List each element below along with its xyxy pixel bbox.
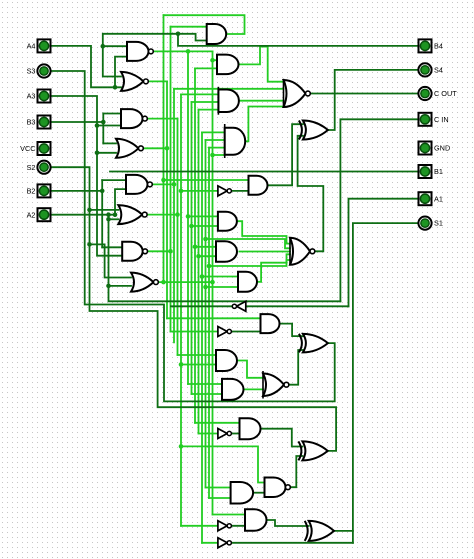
and gate G26: [222, 379, 244, 400]
wire net G12 input 3: [209, 147, 225, 149]
wire bus V10: [198, 110, 200, 434]
wire net G1 out: [153, 49, 213, 54]
not gate G15: [218, 186, 232, 196]
nor gate G27: [263, 371, 289, 399]
svg-text:A4: A4: [27, 42, 36, 51]
wire net G31 out: [253, 492, 264, 494]
nand gate G35: [265, 477, 291, 497]
nor gate G6: [118, 205, 147, 224]
wire net G19 input 2: [203, 237, 290, 249]
wire bus V5: [177, 119, 179, 355]
wire net G16 top input: [161, 178, 248, 183]
and gate G12: [225, 124, 245, 158]
wire net G23 out to G24: [280, 324, 303, 337]
wire net G2 out: [148, 80, 167, 82]
wire net G5 out: [151, 182, 176, 187]
input pin VCC: [20, 142, 50, 155]
nor gate G4: [116, 139, 143, 158]
svg-text:C OUT: C OUT: [434, 89, 457, 98]
wire net G6 top input: [90, 209, 119, 211]
wire net G34 out: [230, 542, 353, 544]
wire net G11 input 1: [181, 93, 218, 95]
wire net S4: [328, 70, 418, 130]
wire net G35 out to G30: [290, 456, 302, 487]
wire net G11 input 2: [192, 101, 219, 103]
output pin S3: [27, 64, 51, 77]
wire net G29 out: [230, 433, 240, 435]
wire net G23 top input: [167, 317, 261, 319]
wire net G6 out: [147, 212, 180, 217]
wire net A4: [51, 46, 128, 90]
not gate G32: [218, 521, 232, 531]
input pin A1: [419, 192, 443, 205]
wire net G10 out: [239, 47, 284, 82]
nor gate G19: [290, 238, 315, 265]
wire net G31 top input: [206, 487, 231, 489]
wire net G15 out: [230, 190, 249, 192]
wire net A1 inverted: [171, 305, 349, 307]
wire net G17 out: [237, 221, 290, 243]
wire net G17 bottom input: [189, 224, 218, 229]
not gate G29: [218, 429, 232, 439]
wire net B3: [51, 114, 122, 144]
input pin B1: [419, 165, 443, 178]
wire net G10 top input: [210, 58, 217, 63]
wire net G34 input: [202, 542, 218, 544]
wire net G31 bottom input: [209, 497, 231, 499]
and gate G20: [238, 272, 257, 292]
wire net G12 out: [246, 107, 284, 142]
and gate G10: [217, 55, 239, 75]
wire net G29 input: [199, 433, 218, 435]
wire net G9 out loop: [164, 15, 245, 34]
svg-text:A2: A2: [27, 210, 36, 219]
and gate G31: [231, 482, 254, 504]
wire net G25 bottom input: [179, 362, 216, 367]
wire net G28 top input: [195, 422, 240, 424]
wire net G15 input: [179, 189, 218, 194]
wire net A3: [51, 96, 123, 256]
wire net G11 input 3: [199, 109, 219, 111]
input pin B4: [419, 39, 443, 52]
svg-text:B2: B2: [27, 187, 36, 196]
wire net S1: [353, 223, 419, 543]
wire net G13 input 2: [174, 88, 284, 90]
wire net G18 out: [239, 251, 290, 253]
input pin GND: [419, 142, 451, 155]
wire net G26 bottom input: [192, 393, 223, 395]
nand gate G1: [127, 42, 153, 61]
wire net C IN: [340, 119, 418, 301]
wire net G12 input 2: [206, 139, 225, 141]
and gate G23: [261, 314, 280, 333]
wire net B4: [101, 32, 419, 77]
and gate G18: [216, 241, 237, 262]
xor gate G14: [299, 121, 328, 140]
wire net S3: [51, 71, 335, 401]
wire net G22 out: [230, 331, 261, 333]
wire net A1: [349, 199, 419, 307]
wire net G33 out: [334, 530, 353, 532]
wire net A2: [51, 189, 341, 301]
wire bus V9: [194, 68, 196, 422]
svg-text:B1: B1: [434, 167, 443, 176]
wire net G27 out to G24: [286, 350, 303, 385]
wire net G20 bottom input: [203, 285, 238, 290]
input pin C IN: [419, 113, 449, 126]
wire net G8 out: [156, 280, 215, 285]
svg-text:A3: A3: [27, 92, 36, 101]
wire net G20 top input: [200, 274, 238, 279]
wire net G20 out: [257, 254, 290, 281]
wire net G10 bottom input: [195, 67, 217, 69]
input pin A2: [27, 208, 51, 221]
xor gate G30: [298, 441, 327, 460]
wire net G26 top input: [188, 383, 222, 385]
and gate G36: [245, 509, 267, 531]
wire net G28 out to G30: [261, 429, 303, 447]
input pin B2: [27, 184, 51, 197]
wire net G4 out: [143, 146, 169, 151]
wire net G12 input 1: [202, 131, 225, 133]
wire bus V2: [166, 81, 168, 318]
nor gate G8: [131, 273, 158, 292]
wire bus V7: [187, 51, 189, 384]
not gate G34: [218, 538, 232, 548]
and gate G17: [218, 212, 237, 231]
and gate G16: [249, 176, 268, 195]
wire net C OUT: [310, 93, 418, 95]
svg-text:S3: S3: [27, 67, 36, 76]
and gate G11: [218, 87, 239, 115]
wire net G8 top input: [90, 244, 132, 277]
wire net G11 out: [239, 100, 283, 102]
wire net B2: [51, 180, 127, 247]
svg-text:C IN: C IN: [434, 115, 449, 124]
wire net S2: [51, 167, 336, 451]
nand gate G3: [121, 109, 147, 128]
wire net G32 out: [230, 525, 246, 527]
wire net G3 out: [146, 118, 178, 120]
wire bus V1: [163, 15, 165, 282]
wire net G19 input 4: [207, 260, 290, 268]
wire net G36 top input: [213, 514, 246, 516]
wire bus V6: [180, 94, 182, 525]
svg-text:VCC: VCC: [20, 144, 35, 153]
wire net G18 bottom input: [196, 254, 216, 259]
xor gate G24: [299, 334, 328, 353]
svg-text:S4: S4: [434, 66, 443, 75]
nand gate G5: [126, 175, 152, 194]
wire net G17 top input: [186, 214, 218, 219]
wire bus V8: [191, 102, 193, 394]
output pin C OUT: [418, 87, 457, 100]
svg-text:B3: B3: [27, 118, 36, 127]
and gate G28: [240, 418, 261, 439]
wire bus V13: [208, 148, 210, 498]
wire net G9 top input: [171, 26, 207, 28]
svg-text:B4: B4: [434, 42, 443, 51]
wire net B1: [110, 171, 419, 173]
wire net G25 out: [237, 361, 263, 378]
wire net G26 out: [244, 388, 263, 390]
and gate G25: [216, 350, 237, 371]
not gate G22: [218, 327, 232, 337]
wire net G36 out to G33: [267, 520, 309, 526]
input pin A3: [27, 90, 51, 103]
output pin S2: [27, 161, 51, 174]
wire bus V3: [170, 27, 172, 332]
wire bus V11: [201, 132, 203, 542]
svg-text:GND: GND: [434, 144, 450, 153]
wire net G25 top input: [178, 354, 217, 356]
not gate G21: [232, 301, 246, 311]
wire net G35 top input: [179, 444, 265, 482]
svg-text:S2: S2: [27, 163, 36, 172]
nor gate G2: [121, 72, 148, 91]
and gate G9: [207, 24, 227, 44]
wire net G6 bottom input: [106, 217, 118, 222]
wire bus V4: [173, 89, 175, 342]
xor gate G33: [305, 521, 334, 541]
wire net G19 out to G14: [298, 136, 324, 252]
output pin S1: [418, 217, 443, 230]
input pin A4: [27, 39, 51, 52]
wire net G32 input: [181, 525, 218, 527]
svg-text:A1: A1: [434, 194, 443, 203]
wire bus V14: [212, 51, 214, 514]
nor gate G13: [284, 79, 311, 108]
wire net G16 out to G14: [268, 124, 303, 185]
svg-text:S1: S1: [434, 219, 443, 228]
wire bus V12: [205, 140, 207, 488]
output pin S4: [418, 63, 443, 76]
wire net G18 top input: [193, 245, 216, 250]
wire net G12 input 4: [210, 153, 225, 158]
nand gate G7: [122, 242, 147, 261]
wire net G7 out: [145, 249, 173, 254]
input pin B3: [27, 116, 51, 129]
wire net G22 input: [171, 331, 218, 333]
